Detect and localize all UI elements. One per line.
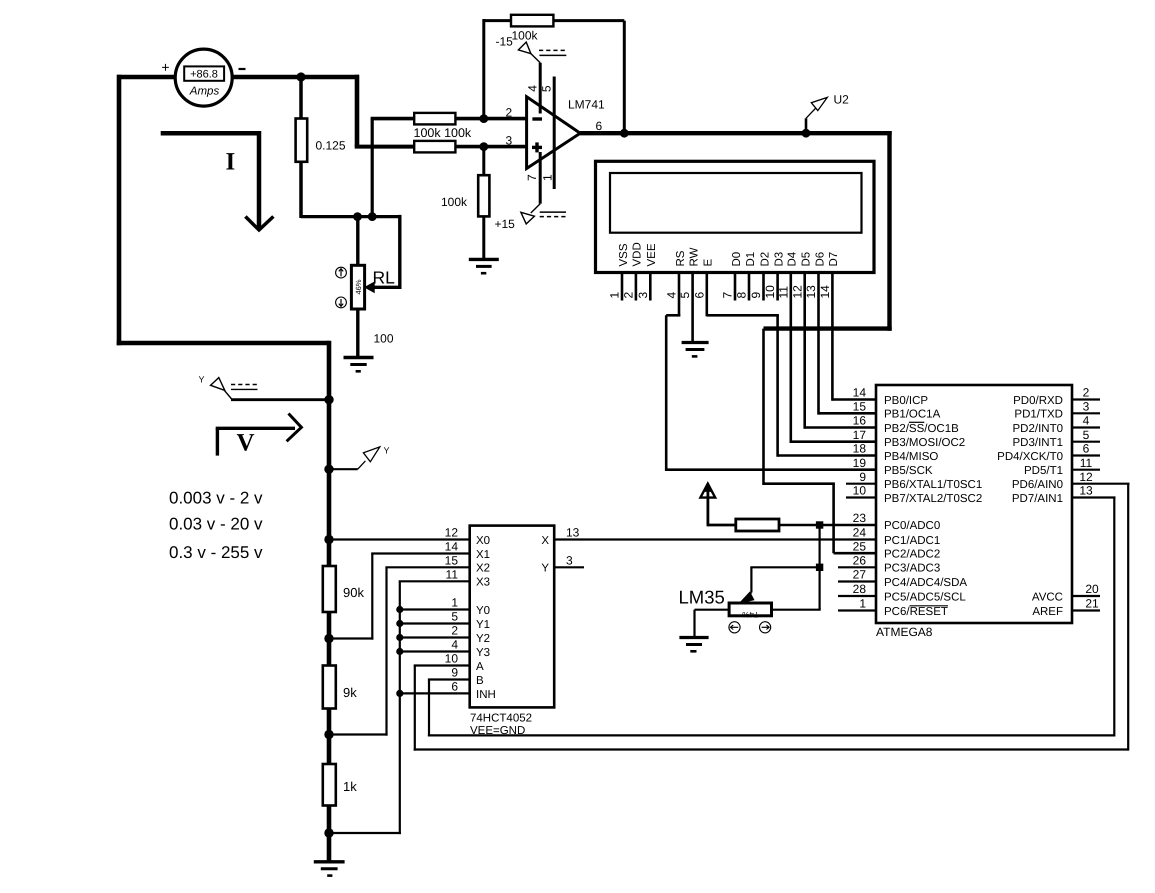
svg-text:+15: +15 xyxy=(495,217,516,231)
node: dot X0 row xyxy=(324,535,333,544)
svg-text:6: 6 xyxy=(692,292,706,299)
wire: pin2 row left segment xyxy=(371,117,415,121)
probe Y2 wire xyxy=(329,468,358,470)
ATMEGA8 pin 5 stub xyxy=(1072,441,1100,443)
wire: horizontal node row under 0.125 xyxy=(301,215,400,218)
svg-text:Y3: Y3 xyxy=(476,647,490,659)
svg-text:-15: -15 xyxy=(496,35,514,49)
svg-text:27: 27 xyxy=(853,568,867,582)
svg-text:X3: X3 xyxy=(476,577,490,589)
wire: pullup to PC0 xyxy=(779,524,877,527)
svg-text:2: 2 xyxy=(622,292,636,299)
resistor 100k (R input lower) body xyxy=(414,141,455,153)
svg-text:4: 4 xyxy=(526,85,540,92)
svg-text:26: 26 xyxy=(853,554,867,568)
wire: A riser xyxy=(414,666,416,751)
wire: output down to PC2 xyxy=(832,484,835,554)
wire: 0.125 bottom lead xyxy=(299,162,303,218)
svg-text:ATMEGA8: ATMEGA8 xyxy=(876,625,933,639)
ATMEGA8 pin 2 stub xyxy=(1072,398,1100,400)
wire: pin3 row right segment xyxy=(455,145,526,149)
svg-text:14: 14 xyxy=(853,386,867,400)
supply +15 dashed rail xyxy=(540,216,566,218)
op-amp U1 plus sign xyxy=(532,146,542,149)
svg-text:LM35: LM35 xyxy=(679,587,725,608)
svg-text:9: 9 xyxy=(749,292,763,299)
ground (op-amp pin3) bar3 xyxy=(481,272,486,275)
svg-text:12: 12 xyxy=(445,526,459,540)
wire: X1 tap horizontal xyxy=(329,637,373,639)
svg-text:3: 3 xyxy=(636,292,650,299)
wire: feedback top left segment xyxy=(484,19,511,22)
wire: wiper tee horizontal xyxy=(750,566,819,568)
wire: 0.125 top lead xyxy=(299,77,303,120)
potentiometer RL wiper arrowhead xyxy=(365,282,374,292)
wire: X2 horizontal xyxy=(385,566,469,568)
ground (divider) bar2 xyxy=(321,867,338,870)
svg-text:25: 25 xyxy=(853,539,867,553)
svg-text:12: 12 xyxy=(1079,470,1093,484)
74HCT4052 box xyxy=(470,526,555,708)
wire: AIN1 bottom horizontal xyxy=(428,734,1114,736)
LCD pin 6 stub xyxy=(705,273,708,301)
supply Y1 wire xyxy=(231,398,329,401)
LCD pin 14 stub xyxy=(831,273,834,301)
svg-text:5: 5 xyxy=(1083,428,1090,442)
potentiometer RL wiper riser xyxy=(398,215,401,289)
potentiometer LM35 right indicator xyxy=(760,622,771,633)
svg-text:V: V xyxy=(237,430,255,457)
svg-text:10: 10 xyxy=(763,285,777,299)
potentiometer RL wiper horizontal xyxy=(368,286,400,289)
wire: X0 from divider xyxy=(329,538,470,540)
ATMEGA8 pin 11 stub xyxy=(1072,469,1100,471)
svg-text:9: 9 xyxy=(859,470,866,484)
svg-text:INH: INH xyxy=(476,689,496,701)
potentiometer LM35 left indicator xyxy=(729,622,740,633)
wire: X1 horizontal xyxy=(371,552,470,554)
svg-text:RL: RL xyxy=(373,268,396,288)
svg-text:VDD: VDD xyxy=(632,242,644,266)
wire: pin3 pulldown bottom lead xyxy=(482,216,485,259)
probe U2 shaft xyxy=(806,101,823,118)
svg-text:D6: D6 xyxy=(814,252,826,267)
svg-text:X0: X0 xyxy=(476,535,490,547)
svg-text:46%: 46% xyxy=(354,279,363,294)
supply +15 tail xyxy=(531,204,540,213)
supply +15 solid rail xyxy=(540,211,566,213)
ground (LM35) bar3 xyxy=(690,650,696,653)
svg-text:PB1/OC1A: PB1/OC1A xyxy=(884,409,941,421)
svg-text:100k: 100k xyxy=(512,29,539,43)
ground (divider) bar1 xyxy=(314,860,345,863)
svg-text:19: 19 xyxy=(853,456,867,470)
ATMEGA8 pin 21 stub xyxy=(1072,609,1100,611)
svg-text:PC6/RESET: PC6/RESET xyxy=(884,606,948,618)
ammeter M1 circle xyxy=(175,49,232,106)
svg-text:Y1: Y1 xyxy=(476,619,490,631)
wire: D5 column xyxy=(803,301,806,429)
wire: top wire corner down to pin3 row xyxy=(355,75,360,147)
svg-text:1: 1 xyxy=(451,596,458,610)
74HCT4052 Y stub xyxy=(554,566,584,568)
node: dot probe-Y row xyxy=(324,465,333,474)
wire: RL bottom lead xyxy=(356,309,359,358)
wire: D7 column xyxy=(831,301,834,401)
svg-text:Y2: Y2 xyxy=(476,633,490,645)
wire: RS jog left xyxy=(666,314,680,317)
svg-text:D1: D1 xyxy=(745,252,757,267)
ATMEGA8 overline SS (pin16) xyxy=(909,421,924,423)
node: square dot PC0/pullup xyxy=(816,521,823,528)
supply -15 dashed rail xyxy=(539,49,566,51)
svg-text:PD4/XCK/T0: PD4/XCK/T0 xyxy=(997,451,1063,463)
svg-text:E: E xyxy=(703,259,715,267)
resistor pullup body xyxy=(736,519,779,531)
supply -15 tail xyxy=(531,53,541,63)
svg-text:11: 11 xyxy=(776,286,790,299)
ATMEGA8 pin 10 stub xyxy=(846,496,876,498)
node: dot Y1 xyxy=(396,620,403,627)
svg-text:13: 13 xyxy=(804,285,818,299)
svg-text:2: 2 xyxy=(506,106,513,120)
wire: E down xyxy=(705,301,708,317)
LM35 wiper arrowhead xyxy=(740,592,754,603)
wire: D4 to PB3 xyxy=(791,440,877,443)
svg-text:U2: U2 xyxy=(834,93,850,107)
wire: output column down (D2 col) xyxy=(762,329,765,485)
ground (RL) bar3 xyxy=(356,370,361,373)
wire: D5 to PB2 xyxy=(805,426,877,429)
svg-text:0.03 v - 20 v: 0.03 v - 20 v xyxy=(169,515,263,534)
svg-text:5: 5 xyxy=(678,292,692,299)
LCD pin 13 stub xyxy=(817,273,820,301)
ATMEGA8 pin 20 stub xyxy=(1072,595,1100,597)
supply Y1 triangle xyxy=(211,378,225,391)
svg-text:13: 13 xyxy=(1079,484,1093,498)
svg-text:11: 11 xyxy=(1080,456,1093,470)
svg-text:9k: 9k xyxy=(343,685,357,700)
svg-text:PB2/SS/OC1B: PB2/SS/OC1B xyxy=(884,423,959,435)
svg-text:2: 2 xyxy=(1083,386,1090,400)
svg-text:1: 1 xyxy=(608,292,622,299)
svg-text:A: A xyxy=(476,661,484,673)
resistor 90k body xyxy=(323,566,336,612)
wire: output lower horizontal xyxy=(764,326,892,330)
wire: INH horizontal xyxy=(400,692,470,694)
wire: D7 to PB0 xyxy=(832,398,877,401)
svg-text:24: 24 xyxy=(853,526,867,540)
wire: X2 riser xyxy=(385,567,387,735)
svg-text:3: 3 xyxy=(566,554,573,568)
svg-text:D4: D4 xyxy=(787,251,799,266)
voltage arrow V vertical xyxy=(216,428,219,455)
svg-text:PD0/RXD: PD0/RXD xyxy=(1013,395,1063,407)
ground (RL) bar1 xyxy=(344,356,374,359)
wire: X output to PC1 xyxy=(554,538,877,540)
svg-text:12: 12 xyxy=(790,285,804,299)
svg-text:10: 10 xyxy=(853,484,867,498)
node: dot Y2 xyxy=(396,634,403,641)
node: dot feedback/output xyxy=(620,129,629,138)
wire: Y3 horizontal xyxy=(400,650,470,652)
svg-text:B: B xyxy=(476,675,484,687)
svg-text:0.003 v - 2 v: 0.003 v - 2 v xyxy=(169,489,263,508)
svg-text:PC4/ADC4/SDA: PC4/ADC4/SDA xyxy=(884,577,967,589)
svg-text:PD5/T1: PD5/T1 xyxy=(1024,465,1063,477)
op-amp U1 triangle xyxy=(527,97,581,169)
wire: Y2 horizontal xyxy=(400,636,470,638)
svg-text:PD1/TXD: PD1/TXD xyxy=(1014,409,1063,421)
resistor 9k body xyxy=(323,666,336,709)
node: dot supply-Y row xyxy=(324,395,333,404)
ground (op-amp pin3) bar2 xyxy=(476,265,492,268)
wire: E to PB4 xyxy=(778,454,877,457)
svg-text:PC3/ADC3: PC3/ADC3 xyxy=(884,563,940,575)
svg-text:X: X xyxy=(541,535,549,547)
node: dot INH xyxy=(396,690,403,697)
op-amp U1 pin7 line xyxy=(539,152,542,204)
svg-text:PC2/ADC2: PC2/ADC2 xyxy=(884,549,940,561)
svg-text:PB6/XTAL1/T0SC1: PB6/XTAL1/T0SC1 xyxy=(884,479,982,491)
svg-text:1: 1 xyxy=(859,597,866,611)
svg-text:28: 28 xyxy=(853,582,867,596)
svg-text:18: 18 xyxy=(853,442,867,456)
svg-text:6: 6 xyxy=(596,119,603,133)
svg-text:1k: 1k xyxy=(343,779,357,794)
wire: AIN0 right vertical xyxy=(1127,484,1129,751)
svg-text:I: I xyxy=(226,149,236,176)
current arrow I horizontal xyxy=(161,131,259,136)
node: dot ground tap xyxy=(324,828,333,837)
ground (LCD RW) bar2 xyxy=(686,348,705,351)
LCD pin 1 stub xyxy=(621,273,624,301)
ATMEGA8 pin 28 stub xyxy=(838,595,876,597)
svg-text:9: 9 xyxy=(451,666,458,680)
wire: output right vertical xyxy=(887,131,891,331)
probe Y2 triangle xyxy=(363,447,379,462)
wire: pin3 pulldown top lead xyxy=(482,147,485,176)
node: dot X1 tap xyxy=(324,634,333,643)
svg-text:Y0: Y0 xyxy=(476,605,490,617)
svg-text:90k: 90k xyxy=(343,585,364,600)
svg-text:+: + xyxy=(161,59,169,75)
LCD pin 2 stub xyxy=(635,273,638,301)
svg-text:PB5/SCK: PB5/SCK xyxy=(884,465,933,477)
LCD pin 10 stub xyxy=(776,273,779,301)
svg-text:PD2/INT0: PD2/INT0 xyxy=(1013,423,1064,435)
LCD pin 12 stub xyxy=(803,273,806,301)
ground (LM35) bar2 xyxy=(686,643,702,646)
svg-text:VEE: VEE xyxy=(646,243,658,266)
wire: feedback riser xyxy=(482,19,485,119)
wire: LM35 right lead xyxy=(772,609,821,611)
svg-text:4: 4 xyxy=(451,638,458,652)
svg-text:D5: D5 xyxy=(801,252,813,267)
supply Y1 dashed rail xyxy=(231,384,258,386)
LCD pin 8 stub xyxy=(748,273,751,301)
svg-text:D7: D7 xyxy=(828,252,840,267)
svg-text:15: 15 xyxy=(445,554,459,568)
LCD pin 9 stub xyxy=(762,273,765,301)
current arrow I head xyxy=(245,217,273,231)
resistor 100k (pin3 pulldown) body xyxy=(478,175,489,216)
svg-text:0.3 v - 255 v: 0.3 v - 255 v xyxy=(169,543,263,562)
svg-text:Y: Y xyxy=(541,563,549,575)
svg-text:74HCT4052: 74HCT4052 xyxy=(470,713,532,725)
wire: Y1 horizontal xyxy=(400,622,470,624)
svg-text:AREF: AREF xyxy=(1032,606,1063,618)
svg-text:100k 100k: 100k 100k xyxy=(414,126,472,140)
wire: divider chain vertical xyxy=(327,341,332,862)
probe Y2 tail xyxy=(358,461,366,469)
svg-text:LM741: LM741 xyxy=(568,98,605,112)
wire: D6 column xyxy=(817,301,820,415)
wire: top wire right segment (ammeter - to corner) xyxy=(231,75,359,80)
ATMEGA8 box xyxy=(876,385,1072,623)
wire: feedback down to output xyxy=(623,21,626,134)
svg-text:4: 4 xyxy=(1083,414,1090,428)
ATMEGA8 pin 27 stub xyxy=(838,580,876,582)
svg-text:PB7/XTAL2/T0SC2: PB7/XTAL2/T0SC2 xyxy=(884,493,982,505)
supply Y1 tail xyxy=(225,391,232,399)
ground (LCD RW) bar3 xyxy=(692,355,698,358)
ground (RL) bar2 xyxy=(350,363,366,366)
node: dot U2 probe xyxy=(802,129,811,138)
wire: X1 riser xyxy=(371,554,373,640)
node: dot pin2 / feedback xyxy=(479,114,488,123)
wire: RW down to ground xyxy=(691,301,694,343)
svg-text:20: 20 xyxy=(1085,582,1099,596)
pullup VCC arrow triangle xyxy=(700,484,715,498)
ammeter - terminal label xyxy=(239,68,246,70)
svg-text:PD7/AIN1: PD7/AIN1 xyxy=(1012,493,1063,505)
ATMEGA8 pin 9 stub xyxy=(846,483,876,485)
svg-text:RS: RS xyxy=(675,250,687,266)
resistor 100k (feedback) body xyxy=(511,15,553,27)
svg-text:8: 8 xyxy=(735,292,749,299)
op-amp U1 pin4 line xyxy=(539,63,542,114)
svg-text:15: 15 xyxy=(853,400,867,414)
ATMEGA8 pin 3 stub xyxy=(1072,412,1100,414)
wire: pin2 riser xyxy=(371,119,374,217)
svg-text:PD6/AIN0: PD6/AIN0 xyxy=(1012,479,1063,491)
LCD pin 7 stub xyxy=(734,273,737,301)
svg-text:VSS: VSS xyxy=(618,243,630,266)
node: dot Y3 xyxy=(396,648,403,655)
resistor 100k (R input upper) body xyxy=(414,113,455,125)
node: dot Y0 xyxy=(396,606,403,613)
svg-text:X1: X1 xyxy=(476,549,490,561)
ATMEGA8 pin 4 stub xyxy=(1072,426,1100,428)
svg-text:PB3/MOSI/OC2: PB3/MOSI/OC2 xyxy=(884,437,965,449)
svg-text:Y: Y xyxy=(384,446,390,456)
wire: A horizontal xyxy=(414,664,470,666)
ground (divider) bar3 xyxy=(327,874,332,877)
svg-text:10: 10 xyxy=(445,652,459,666)
node: square dot wiper tee xyxy=(816,564,823,571)
wire: E column down xyxy=(776,315,779,457)
svg-text:AVCC: AVCC xyxy=(1032,591,1063,603)
pullup VCC arrow head fill xyxy=(703,483,712,492)
wire: LM35 ground drop xyxy=(693,610,695,638)
svg-text:23: 23 xyxy=(853,511,867,525)
svg-text:74%: 74% xyxy=(742,610,758,619)
LCD pin 11 stub xyxy=(789,273,792,301)
svg-text:14: 14 xyxy=(818,285,832,299)
wire: ground tap horizontal xyxy=(329,832,401,834)
svg-text:11: 11 xyxy=(446,568,459,582)
wire: LM35 left lead xyxy=(695,609,730,611)
wire: PD7/AIN1 out xyxy=(1072,496,1116,498)
svg-text:D0: D0 xyxy=(731,252,743,267)
wire: X3 horizontal xyxy=(399,580,470,582)
svg-text:16: 16 xyxy=(853,414,867,428)
wire: left loop vertical xyxy=(117,75,122,346)
svg-text:100: 100 xyxy=(374,332,394,346)
svg-text:D3: D3 xyxy=(773,252,785,267)
wire: B riser xyxy=(428,680,430,737)
svg-text:PC5/ADC5/SCL: PC5/ADC5/SCL xyxy=(884,591,966,603)
supply -15 triangle xyxy=(518,42,531,54)
svg-text:VEE=GND: VEE=GND xyxy=(470,725,525,737)
svg-text:17: 17 xyxy=(853,428,867,442)
svg-text:0.125: 0.125 xyxy=(316,139,346,153)
probe U2 stub xyxy=(805,118,808,133)
node: dot pin3 / ground resistor xyxy=(479,142,488,151)
wire: Y0 horizontal xyxy=(400,608,470,610)
svg-text:100k: 100k xyxy=(441,195,468,209)
svg-text:13: 13 xyxy=(566,526,580,540)
ground (op-amp pin3) bar1 xyxy=(469,258,499,261)
wire: AIN0 bottom horizontal xyxy=(414,748,1128,750)
op-amp U1 minus sign xyxy=(532,117,542,120)
voltage arrow V horizontal xyxy=(216,427,295,430)
potentiometer LM35 body xyxy=(729,603,771,616)
svg-text:2: 2 xyxy=(451,624,458,638)
svg-text:+86.8: +86.8 xyxy=(190,68,218,80)
svg-text:3: 3 xyxy=(1083,400,1090,414)
node: dot RL top branch xyxy=(353,212,362,221)
wire: top wire left segment (battery loop to ammeter +) xyxy=(117,75,176,80)
wire: pot node vertical xyxy=(818,525,820,610)
wire: D4 column xyxy=(789,301,792,444)
potentiometer RL down indicator xyxy=(336,297,347,308)
current arrow I vertical xyxy=(257,131,262,229)
ground (LM35) bar1 xyxy=(679,636,708,639)
wire: pullup horizontal xyxy=(708,524,736,527)
ATMEGA8 pin 1 stub xyxy=(838,609,876,611)
svg-text:5: 5 xyxy=(451,610,458,624)
resistor 0.125 body xyxy=(296,119,308,162)
svg-text:6: 6 xyxy=(451,680,458,694)
LCD pin 3 stub xyxy=(649,273,652,301)
voltage arrow V head xyxy=(287,414,302,442)
svg-text:7: 7 xyxy=(525,174,539,181)
supply -15 solid rail xyxy=(539,54,566,56)
svg-text:D2: D2 xyxy=(759,252,771,267)
svg-text:7: 7 xyxy=(721,292,735,299)
svg-text:5: 5 xyxy=(540,85,554,92)
svg-text:Y: Y xyxy=(199,375,205,385)
resistor 1k body xyxy=(323,764,336,806)
wire: D6 to PB1 xyxy=(819,412,878,415)
svg-text:PD3/INT1: PD3/INT1 xyxy=(1013,437,1064,449)
ATMEGA8 pin 26 stub xyxy=(838,566,876,568)
ATMEGA8 overline RESET (pin1) xyxy=(910,605,948,607)
wire: feedback top right segment xyxy=(553,19,624,22)
wire: RS down xyxy=(678,301,681,317)
